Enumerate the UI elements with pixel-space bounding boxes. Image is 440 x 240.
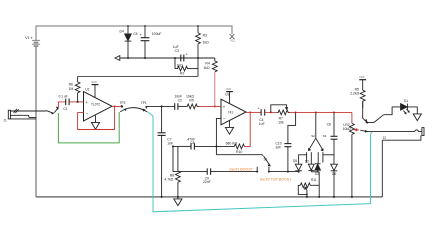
resistor R10 bbox=[216, 144, 244, 149]
wire battery top to VCC rail bbox=[36, 26, 232, 40]
LED D1 bbox=[401, 104, 410, 114]
cyan bypass wire to output jack bbox=[148, 112, 371, 212]
svg-text:+: + bbox=[85, 100, 88, 105]
net flag arrow (bias node) bbox=[115, 56, 120, 61]
U1 ground bbox=[91, 115, 99, 129]
svg-text:4.7kΩ: 4.7kΩ bbox=[164, 178, 173, 182]
wire diode bottoms bus bbox=[311, 171, 319, 173]
wire S1 right contact to diode cluster bbox=[269, 171, 299, 173]
node dot S1 right contact bbox=[268, 171, 270, 173]
svg-text:C3: C3 bbox=[175, 49, 179, 53]
node dot D5 column bbox=[298, 171, 300, 173]
red feedback loop U1 output to inverting input bbox=[78, 106, 123, 129]
S2 contact prongs bbox=[307, 152, 323, 162]
bias rail wire bbox=[120, 57, 215, 59]
feedback rail wire R6 to bias network bbox=[78, 75, 198, 77]
node dot C7 tap bbox=[161, 105, 163, 107]
svg-text:D3: D3 bbox=[315, 172, 319, 176]
diode D6 bbox=[331, 164, 338, 197]
svg-text:Sw.#1 BOOST: Sw.#1 BOOST bbox=[229, 168, 253, 172]
node dot top rail at R3 bbox=[197, 25, 199, 27]
svg-text:R2: R2 bbox=[180, 72, 184, 76]
LED ground symbol bbox=[413, 114, 421, 121]
svg-text:VCC: VCC bbox=[91, 80, 97, 84]
svg-text:U1: U1 bbox=[85, 88, 89, 92]
svg-text:+: + bbox=[223, 104, 226, 109]
resistor R8 bbox=[175, 146, 180, 197]
VCC power bar for R5 bbox=[359, 80, 366, 91]
capacitor C1 bbox=[66, 99, 69, 106]
resistor R3 bbox=[196, 26, 201, 58]
svg-text:10kΩ: 10kΩ bbox=[343, 127, 351, 131]
diode D3 (reversed, filled) bbox=[315, 163, 321, 172]
resistor R4 bbox=[212, 58, 217, 72]
svg-text:680 KΩ: 680 KΩ bbox=[226, 141, 238, 145]
wire R7 to volume pot (red) bbox=[290, 111, 352, 113]
node dot feedback node bbox=[215, 145, 217, 147]
svg-text:R4: R4 bbox=[205, 62, 209, 66]
node dot R11 ground bbox=[306, 196, 308, 198]
svg-text:TP1: TP1 bbox=[141, 101, 147, 105]
svg-text:10k: 10k bbox=[278, 121, 284, 125]
svg-text:1M: 1M bbox=[69, 87, 74, 91]
capacitor C6 bbox=[331, 112, 338, 164]
ground symbol below rail bbox=[174, 197, 182, 206]
node dot C1/R6 bbox=[77, 101, 79, 103]
node dot output feedback tap bbox=[249, 111, 251, 113]
svg-text:Sw.#2 TOP BOOST: Sw.#2 TOP BOOST bbox=[260, 177, 292, 181]
resistor R2 bbox=[175, 58, 198, 76]
diode D2 bbox=[308, 163, 314, 172]
red feedback drop to R10 bbox=[244, 112, 250, 146]
ground rail wire bbox=[36, 196, 382, 198]
wire diode bus to ground rail bbox=[318, 172, 320, 197]
wire S2 pole drop bbox=[315, 112, 317, 138]
wiper wire (red) bbox=[355, 129, 359, 131]
op-amp U3 bbox=[221, 99, 246, 125]
switch S2 blade left bbox=[308, 138, 315, 150]
node dot C10 branch bbox=[295, 111, 297, 113]
node dot top rail at C5 bbox=[144, 25, 146, 27]
svg-text:D6: D6 bbox=[332, 172, 336, 176]
svg-text:D5: D5 bbox=[293, 159, 297, 163]
svg-text:S3: S3 bbox=[323, 134, 327, 138]
wire U3 output (red) bbox=[246, 111, 261, 113]
node dot C6 branch bbox=[333, 111, 335, 113]
svg-text:R9: R9 bbox=[189, 98, 193, 102]
svg-text:1nF: 1nF bbox=[167, 141, 173, 145]
volume pot LR2 bbox=[350, 112, 355, 196]
node dot S2 branch bbox=[315, 111, 317, 113]
jack J1 bbox=[8, 109, 46, 119]
wire battery negative down to ground rail bbox=[35, 46, 37, 197]
node dot U1 output bbox=[114, 105, 116, 107]
node dot C7 at ground rail bbox=[161, 196, 163, 198]
svg-text:V1: V1 bbox=[25, 36, 29, 40]
node dot treble node bbox=[172, 145, 174, 147]
wire bus S1 common bbox=[216, 154, 262, 156]
wire right contact to C6/D6 column bbox=[323, 154, 334, 156]
svg-text:+: + bbox=[30, 36, 33, 41]
jack switch blade bbox=[46, 107, 58, 114]
node dot R8 ground bbox=[177, 196, 179, 198]
svg-text:S1: S1 bbox=[264, 158, 268, 162]
node dot C10 joins bus bbox=[287, 171, 289, 173]
svg-text:U3: U3 bbox=[225, 93, 229, 97]
svg-text:C6: C6 bbox=[327, 122, 331, 126]
capacitor C9 bbox=[173, 168, 257, 174]
svg-text:1uF: 1uF bbox=[173, 45, 179, 49]
capacitor C10 bbox=[284, 112, 295, 171]
node dot top rail at D4 bbox=[127, 25, 129, 27]
svg-text:R10: R10 bbox=[236, 150, 242, 154]
svg-text:1uF: 1uF bbox=[259, 122, 265, 126]
battery V1 bbox=[32, 40, 40, 46]
diode D4 bbox=[125, 26, 132, 58]
svg-text:J2: J2 bbox=[383, 136, 387, 140]
switch S1 blade bbox=[262, 155, 270, 166]
op-amp U1 bbox=[84, 92, 113, 121]
node dot C3 right bbox=[197, 57, 199, 59]
wire C9 branch from treble node bbox=[172, 146, 174, 171]
wire jack to C1 (red) bbox=[58, 102, 65, 108]
svg-text:C8: C8 bbox=[190, 141, 194, 145]
wire R9 to U3 (red) bbox=[199, 105, 222, 107]
test point TP2 contact tick bbox=[121, 105, 123, 108]
svg-text:D4: D4 bbox=[120, 30, 124, 34]
resistor R9 bbox=[186, 104, 199, 109]
svg-text:R3: R3 bbox=[203, 34, 207, 38]
node dot volume pot ground bbox=[351, 196, 353, 198]
jack J2 bbox=[382, 128, 424, 197]
green bypass wire bbox=[58, 112, 119, 143]
node dot R11 wiper bbox=[306, 194, 308, 196]
svg-text:VCC: VCC bbox=[226, 87, 232, 91]
svg-text:1nF: 1nF bbox=[275, 145, 281, 149]
capacitor C7 bbox=[158, 106, 166, 196]
net flag VCC (X marker) bbox=[230, 34, 235, 39]
wire left contact to D5 bbox=[299, 155, 307, 164]
bypass switch blade arc bbox=[120, 108, 147, 112]
svg-text:741: 741 bbox=[228, 110, 234, 114]
svg-text:2.2kΩ: 2.2kΩ bbox=[350, 91, 359, 95]
svg-text:C2: C2 bbox=[178, 98, 182, 102]
svg-text:TL072: TL072 bbox=[91, 103, 100, 107]
output jack switch pole 2 (signal) bbox=[360, 130, 414, 132]
node dot R4 drop joins signal bbox=[214, 105, 216, 107]
node dot bias rail at C5 bbox=[144, 57, 146, 59]
svg-text:J1: J1 bbox=[3, 118, 7, 122]
svg-text:TP2: TP2 bbox=[120, 101, 126, 105]
test point TP1 contact tick bbox=[146, 106, 148, 108]
svg-text:VCC: VCC bbox=[359, 75, 365, 79]
capacitor C5 bbox=[141, 26, 150, 58]
wire R4 to U3 noninverting input (red) bbox=[214, 72, 216, 107]
svg-text:R11: R11 bbox=[311, 178, 317, 182]
svg-text:VCC: VCC bbox=[230, 39, 236, 43]
svg-text:−: − bbox=[223, 117, 226, 122]
node dot R7 left bbox=[270, 111, 272, 113]
wire U3 inverting input down to feedback node bbox=[216, 118, 221, 154]
node dot C3 left bbox=[174, 57, 176, 59]
svg-text:1kΩ: 1kΩ bbox=[203, 66, 210, 70]
svg-text:D2: D2 bbox=[305, 160, 309, 164]
capacitor C2 bbox=[175, 103, 186, 110]
svg-text:1kΩ: 1kΩ bbox=[177, 63, 184, 67]
wire TP1 to C2 bbox=[146, 105, 174, 107]
node dot S1 left contact bbox=[256, 171, 258, 173]
potentiometer R7 bbox=[271, 105, 290, 115]
node dot D6 ground bbox=[333, 196, 335, 198]
resistor R6 bbox=[75, 76, 80, 102]
svg-text:−: − bbox=[86, 111, 89, 116]
capacitor C4 bbox=[261, 109, 265, 115]
U3 ground bbox=[225, 121, 233, 135]
capacitor C8 bbox=[178, 143, 217, 149]
wire C4 to tone/volume (red) bbox=[265, 111, 277, 113]
potentiometer R11 bbox=[298, 183, 319, 197]
svg-text:100uF: 100uF bbox=[152, 32, 162, 36]
svg-text:22nF: 22nF bbox=[203, 180, 211, 184]
svg-text:C1: C1 bbox=[63, 107, 67, 111]
switch S3 blade right bbox=[316, 138, 323, 151]
jack J2 bump bbox=[415, 130, 422, 132]
svg-text:D1: D1 bbox=[404, 99, 408, 103]
svg-text:R6: R6 bbox=[69, 83, 73, 87]
svg-text:C5: C5 bbox=[133, 32, 137, 36]
U3 VCC power bar bbox=[226, 92, 233, 104]
output jack switch pole 1 (LED) bbox=[363, 101, 401, 123]
svg-text:1kΩ: 1kΩ bbox=[203, 40, 210, 44]
capacitor C3 bbox=[181, 55, 184, 62]
wire C1 to U1 input (red) bbox=[69, 101, 83, 103]
diode D5 bbox=[295, 164, 302, 171]
U1 VCC power bar bbox=[92, 85, 99, 98]
wire LED to ground bbox=[407, 107, 417, 114]
svg-text:S2: S2 bbox=[311, 134, 315, 138]
node dot bias rail at D4 bbox=[127, 57, 129, 59]
cyan contact tick bbox=[371, 132, 373, 134]
node dot diode bus ground bbox=[318, 196, 320, 198]
svg-text:0.1 uF: 0.1 uF bbox=[59, 95, 68, 99]
resistor R5 bbox=[360, 90, 365, 108]
wire treble node to R8 column bbox=[173, 145, 178, 147]
S1 contacts bbox=[257, 167, 269, 172]
